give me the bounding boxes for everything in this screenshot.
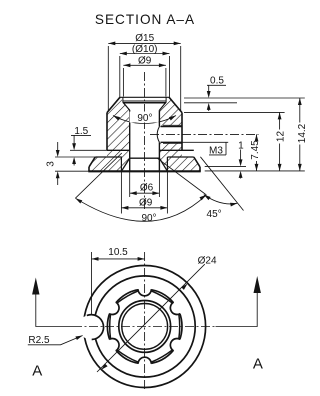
cone flank left: [121, 158, 129, 171]
head side right: [181, 113, 183, 151]
recess mouth edge right: [166, 157, 168, 171]
arrow 1.5 up: [72, 157, 76, 164]
scallop bump 330: [170, 339, 183, 352]
dim Ø15 ext left: [107, 46, 109, 111]
arrow 12 bottom: [278, 164, 282, 171]
ref line recess bottom extended: [184, 102, 237, 104]
M3 thread crest bottom: [163, 143, 182, 145]
dim 1 leader: [240, 150, 242, 164]
ref skirt top left ext: [55, 156, 95, 158]
arrow Ø9 right: [159, 63, 166, 67]
dim 14.2 line: [299, 98, 301, 123]
arrow 12 top: [278, 112, 282, 119]
arrow 10.5 left: [92, 257, 99, 261]
head top chamfer left: [107, 97, 120, 112]
skirt chamfer right: [194, 157, 200, 167]
svg-text:1.5: 1.5: [74, 126, 88, 137]
arrow 14.2 bottom: [298, 164, 302, 171]
dim Ø10 ext left: [119, 56, 121, 99]
M3 hole top line: [161, 126, 183, 128]
hatch head right wall lower: [159, 142, 182, 150]
svg-text:12: 12: [275, 131, 286, 143]
dim Ø15 line: [108, 42, 180, 44]
dim 0.5 underline: [207, 84, 226, 86]
arrow arc90top left: [112, 114, 120, 121]
bottom face: [88, 170, 200, 172]
scallop bump 270: [138, 357, 151, 370]
dim Ø9 bottom line: [121, 207, 167, 209]
svg-text:3: 3: [45, 161, 56, 167]
svg-text:Ø24: Ø24: [198, 256, 217, 267]
svg-text:1: 1: [238, 140, 244, 151]
skirt rim right: [199, 167, 201, 172]
svg-text:(Ø10): (Ø10): [132, 44, 158, 55]
countersink flank left: [123, 103, 129, 110]
centerline horizontal bottom view: [73, 326, 216, 328]
arrow 1 down: [239, 159, 243, 166]
arrow 1 up: [239, 171, 243, 178]
arrow Ø9 left: [123, 63, 130, 67]
arrow 10.5 right: [138, 257, 145, 261]
head top chamfer right: [169, 97, 182, 112]
ref bottom face left ext: [55, 170, 88, 172]
shoulder line right: [159, 149, 193, 151]
scallop ring circle: [107, 289, 182, 364]
recess edge line 1: [123, 100, 166, 102]
M3 thread crest top: [163, 124, 182, 126]
arrow Ø15 left: [108, 42, 115, 46]
arrow arc45 right: [230, 201, 238, 206]
leader R2.5: [28, 336, 83, 345]
arc 90 top countersink: [113, 116, 176, 124]
dim Ø10 line: [120, 53, 170, 55]
recess edge line 2: [123, 102, 166, 104]
top face: [120, 96, 169, 98]
skirt rim left: [88, 167, 90, 172]
svg-text:45°: 45°: [207, 209, 222, 220]
scallop bump 210: [106, 339, 119, 352]
scallop bump 90: [138, 283, 151, 296]
arrow 0.5 down: [207, 91, 211, 98]
dim 10.5 ext left: [91, 252, 93, 314]
arrow Ø6 left: [130, 191, 137, 195]
cutting plane right: [216, 293, 258, 327]
cone flank extension right: [157, 158, 206, 195]
dim texts section view: [45, 33, 308, 224]
arrow arc45 left: [203, 193, 211, 200]
ref line top face extended: [184, 97, 305, 99]
head side left: [106, 113, 108, 151]
svg-text:90°: 90°: [137, 113, 152, 124]
hatch skirt right: [159, 150, 200, 171]
arrowheads section view: [56, 42, 302, 210]
section arrow A right: [254, 276, 261, 293]
recess wall left: [122, 97, 124, 103]
ref shoulder line left ext: [70, 149, 107, 151]
svg-text:R2.5: R2.5: [28, 335, 50, 346]
bore flat bottom: [130, 157, 160, 159]
dim 12 line: [279, 112, 281, 129]
arrow R2.5: [75, 334, 83, 340]
arrow 1.5 down: [72, 143, 76, 150]
svg-text:A: A: [32, 363, 42, 380]
section arrow A left: [32, 278, 39, 295]
dim Ø9 bottom ext left: [120, 171, 122, 213]
centerline vertical: [144, 72, 146, 210]
hatch skirt left: [89, 150, 130, 171]
arrow Ø15 right: [174, 42, 181, 46]
dim 1 lower leader: [240, 175, 242, 179]
countersink flank right: [159, 103, 165, 110]
bore wall left: [129, 110, 131, 171]
arrow 14.2 top: [298, 98, 302, 105]
dim 1.5 underline: [71, 134, 91, 136]
dim Ø9 ext right: [165, 68, 167, 97]
hatch head right wall upper: [159, 97, 182, 126]
outer circle Ø24: [84, 266, 206, 388]
cutting plane left: [36, 294, 73, 327]
svg-text:Ø6: Ø6: [140, 183, 154, 194]
arrow 3 up: [56, 171, 60, 178]
arrow 7.45 top: [255, 134, 259, 141]
dim Ø9 bottom ext right: [166, 171, 168, 213]
dim 7.45 line: [256, 134, 258, 139]
dim Ø10 ext right: [169, 56, 171, 99]
dim 10.5 line: [92, 258, 145, 260]
dim Ø9 ext left: [122, 68, 124, 97]
M3 hole bottom line: [161, 141, 183, 143]
dim Ø9 line: [123, 64, 165, 66]
dim 0.5 leader upper: [208, 85, 210, 94]
arrow Ø24 upper: [181, 282, 189, 290]
petal arcs between scallop bumps: [110, 291, 180, 362]
svg-text:14.2: 14.2: [297, 123, 308, 143]
ref head chamfer bottom ext: [184, 111, 285, 113]
svg-text:7.45: 7.45: [250, 140, 261, 160]
svg-text:A: A: [253, 356, 263, 373]
text 90 top: [130, 112, 159, 125]
svg-text:M3: M3: [209, 146, 223, 157]
ref skirt land upper ext: [205, 165, 246, 167]
notch R2.5: [79, 315, 104, 340]
recess wall right: [165, 97, 167, 103]
arrow Ø10 left: [120, 52, 127, 56]
center hole circle outer: [119, 301, 171, 353]
arrowheads bottom view: [32, 257, 261, 371]
arrow Ø24 lower: [100, 364, 108, 372]
scallop bump 30: [170, 301, 183, 314]
center hole circle inner: [122, 304, 168, 350]
arrow 3 down: [56, 150, 60, 157]
dim 1.5 leader lower: [73, 160, 75, 166]
texts bottom view: [28, 247, 217, 346]
svg-text:90°: 90°: [141, 213, 156, 224]
dim Ø6 line: [130, 192, 160, 194]
arc 45: [204, 195, 238, 204]
arrow Ø9b left: [121, 206, 128, 210]
groove circle: [94, 276, 195, 377]
arc 90 bottom: [75, 195, 206, 221]
ref bottom face right ext: [205, 170, 305, 172]
cone flank extension left: [75, 153, 121, 198]
dim 1.5 leader upper: [73, 135, 75, 147]
M3 label riser: [225, 142, 227, 155]
skirt corner extension right: [200, 157, 243, 211]
svg-text:Ø9: Ø9: [139, 198, 153, 209]
skirt top edge left: [95, 156, 122, 158]
dim 0.5 leader lower: [208, 106, 210, 112]
arrow 7.45 bottom: [255, 164, 259, 171]
arrow Ø10 right: [163, 52, 170, 56]
shoulder line left: [107, 149, 130, 151]
M3 hole bottom ext: [182, 141, 228, 143]
leader Ø24: [97, 264, 205, 372]
drill meet curve: [157, 127, 159, 143]
bore wall right lower: [158, 142, 160, 171]
svg-text:Ø9: Ø9: [138, 56, 152, 67]
dim 3 line upper: [57, 142, 59, 154]
recess mouth edge left: [120, 157, 122, 171]
arrow arc90bot right: [199, 193, 207, 200]
arrow arc90top right: [169, 114, 177, 121]
cone flank right: [159, 158, 167, 171]
dim Ø15 ext right: [180, 46, 182, 111]
centerline M3 axis: [150, 133, 259, 135]
hatch head left wall: [107, 97, 130, 150]
arrow Ø6 right: [152, 191, 159, 195]
M3 label underline: [209, 154, 226, 156]
dim Ø6 ext right: [158, 171, 160, 197]
svg-text:10.5: 10.5: [108, 247, 128, 258]
dim Ø6 ext left: [129, 171, 131, 197]
arrow arc90bot left: [74, 197, 82, 204]
arrow 0.5 up: [207, 103, 211, 110]
svg-text:SECTION A–A: SECTION A–A: [95, 12, 195, 27]
scallop bump 150: [106, 301, 119, 314]
svg-text:0.5: 0.5: [210, 75, 224, 86]
dim 3 line lower: [57, 175, 59, 186]
bore wall right upper: [158, 110, 160, 126]
svg-text:Ø15: Ø15: [135, 33, 154, 44]
arrow Ø9b right: [160, 206, 167, 210]
skirt chamfer left: [89, 157, 95, 167]
skirt top edge right: [167, 156, 193, 158]
centerline vertical bottom view: [144, 252, 146, 390]
